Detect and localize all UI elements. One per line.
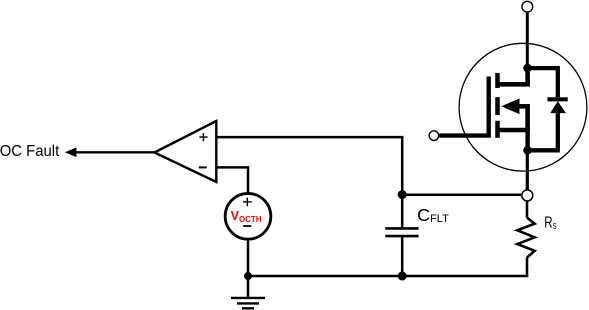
- svg-text:RS: RS: [544, 215, 557, 232]
- svg-text:CFLT: CFLT: [417, 205, 449, 225]
- svg-text:OC Fault: OC Fault: [0, 143, 60, 160]
